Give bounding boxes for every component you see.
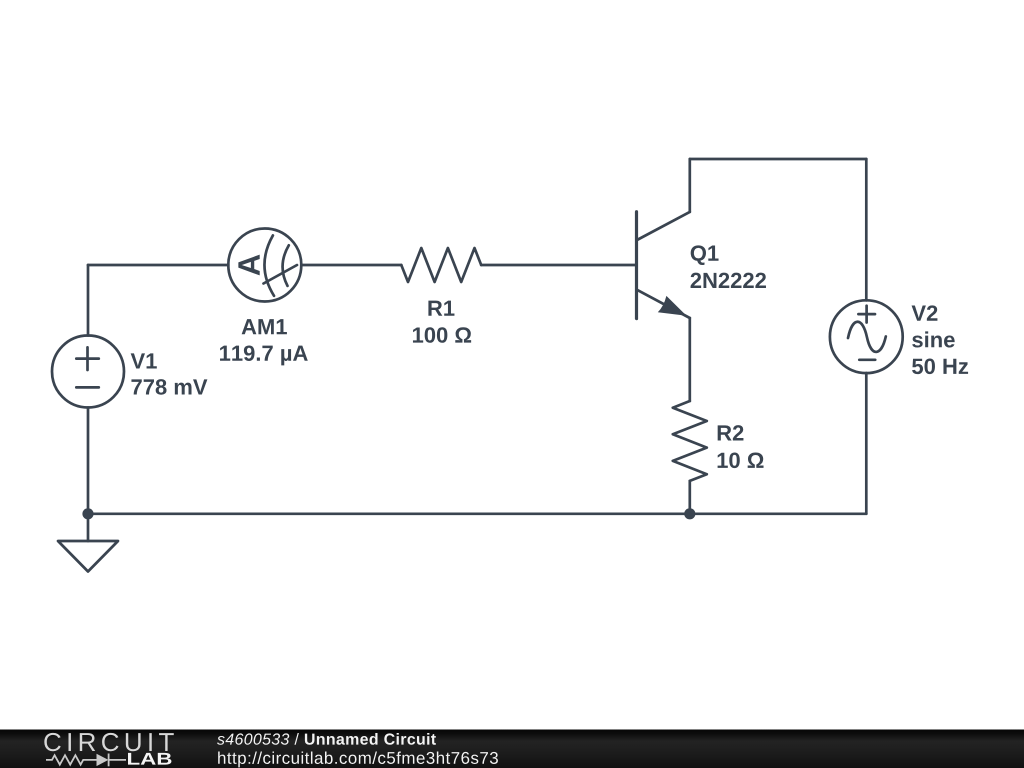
wire: Q1 emitter down to R2: [688, 318, 691, 401]
value 100 Ohm: [413, 327, 471, 343]
label AM1: [242, 319, 287, 334]
logo CIRCUIT text: [44, 733, 173, 751]
wire: R1 to Q1 base: [481, 264, 635, 267]
wire: V1 top to main rail corner: [87, 265, 90, 336]
value 10 Ohm: [718, 453, 764, 469]
ammeter A glyph: [238, 255, 259, 276]
wire: main horizontal rail from corner to AM1: [88, 264, 228, 267]
label R2: [718, 425, 744, 440]
ground: [58, 541, 118, 572]
voltage source V2: [830, 300, 903, 373]
label V2: [912, 305, 938, 320]
value 119.7 uA: [220, 345, 308, 365]
wire: ground stub: [87, 514, 90, 541]
value 2N2222: [691, 273, 766, 288]
footer bar: [0, 730, 1024, 768]
value 50 Hz: [912, 359, 968, 375]
wire: V1 bottom: [87, 408, 90, 514]
resistor R2: [673, 401, 707, 481]
junction: ground node: [82, 508, 93, 519]
wire: V2 bottom: [865, 373, 868, 514]
wire: top rail: [690, 158, 867, 161]
junction: R2/bottom rail: [684, 508, 695, 519]
footer title s4600533 / Unnamed Circuit: [217, 733, 289, 744]
resistor R1: [401, 248, 481, 282]
wire: Q1 collector up: [688, 159, 691, 212]
value sine: [912, 331, 955, 347]
wire: bottom rail: [88, 512, 866, 515]
voltage source V1: [52, 336, 124, 408]
label Q1: [691, 245, 719, 265]
wire: R2 to bottom rail: [688, 481, 691, 514]
label V1: [131, 353, 157, 368]
footer url: [218, 751, 498, 767]
logo LAB text: [128, 753, 171, 765]
transistor Q1: [637, 212, 690, 319]
logo resistor-diode glyph: [46, 754, 126, 767]
ammeter AM1: [228, 229, 301, 302]
wire: V2 top: [865, 159, 868, 300]
value 778 mV: [131, 379, 207, 395]
label R1: [428, 301, 454, 316]
wire: AM1 to R1: [301, 264, 401, 267]
